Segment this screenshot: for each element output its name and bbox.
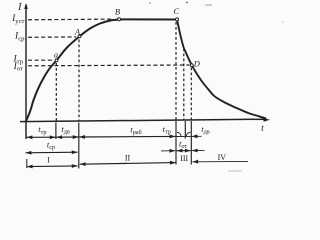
svg-text:tраб: tраб: [130, 124, 141, 136]
svg-text:Iср: Iср: [14, 32, 25, 43]
svg-text:t: t: [261, 124, 264, 134]
svg-text:tдв: tдв: [61, 124, 70, 136]
svg-text:a: a: [54, 51, 58, 60]
svg-text:III: III: [180, 154, 188, 163]
svg-text:I: I: [47, 156, 50, 165]
svg-text:tтр: tтр: [38, 124, 46, 136]
svg-text:D: D: [193, 58, 201, 68]
svg-text:tср: tср: [47, 140, 55, 152]
svg-text:I: I: [17, 2, 22, 13]
svg-text:B: B: [115, 6, 120, 16]
svg-text:tдв: tдв: [201, 124, 210, 136]
svg-text:II: II: [125, 153, 131, 162]
svg-text:Iуст: Iуст: [11, 14, 24, 25]
svg-text:tот: tот: [179, 139, 187, 151]
svg-text:A: A: [74, 26, 81, 36]
svg-text:C: C: [173, 6, 179, 16]
svg-text:IV: IV: [218, 153, 227, 162]
svg-text:tтр: tтр: [163, 124, 171, 136]
